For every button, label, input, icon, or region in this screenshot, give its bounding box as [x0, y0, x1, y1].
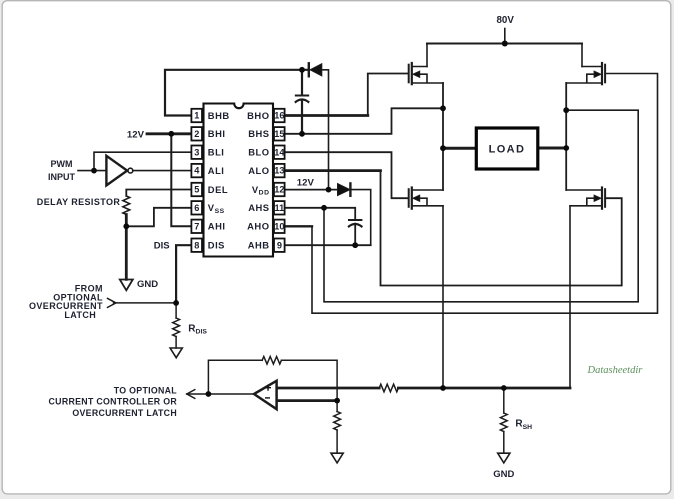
svg-text:INPUT: INPUT — [48, 172, 76, 182]
svg-text:DIS: DIS — [154, 240, 170, 251]
node: inverting input / R4 — [334, 398, 340, 404]
wire: Q4 source down to shunt rail corner — [569, 206, 571, 388]
inverter U2 triangle — [106, 156, 127, 186]
wire: op-amp output line — [187, 393, 254, 395]
pin 10 box — [274, 220, 285, 233]
wire: D1 anode to 12V VDD vertical — [322, 70, 329, 190]
transistor Q1 (B high side) — [409, 63, 443, 84]
svg-text:BHO: BHO — [247, 110, 269, 121]
wire: 12V vertical down to pin7 AHI — [171, 134, 191, 227]
pin 14 box — [274, 146, 285, 159]
capacitor C2 bootstrap A-side — [349, 219, 361, 221]
svg-text:AHS: AHS — [248, 202, 269, 213]
wire: RSH leads — [503, 388, 505, 453]
node: DIS / latch / RDIS — [173, 300, 179, 306]
arrowhead: to optional current controller — [187, 390, 195, 399]
svg-text:BHI: BHI — [208, 128, 226, 139]
svg-text:7: 7 — [194, 221, 199, 231]
node: 12V / BHI / AHI — [168, 131, 174, 137]
wire: from optional overcurrent latch line — [114, 302, 177, 304]
svg-text:13: 13 — [274, 166, 284, 176]
pin 7 box — [191, 220, 202, 233]
svg-text:ALI: ALI — [208, 165, 225, 176]
node: AHS sense tap — [321, 205, 327, 211]
svg-text:LOAD: LOAD — [489, 143, 526, 155]
svg-text:80V: 80V — [496, 15, 514, 26]
svg-text:11: 11 — [275, 203, 285, 213]
svg-text:8: 8 — [194, 240, 199, 250]
svg-text:12: 12 — [274, 185, 284, 195]
node: VDD diode junction — [326, 187, 332, 193]
wire: Q3 drain up to 80V rail — [581, 44, 583, 67]
label: FROM OPTIONAL OVERCURRENT LATCH — [29, 283, 103, 320]
svg-text:BLO: BLO — [248, 147, 269, 158]
wire: VSS pin6 link to delay resistor bottom — [126, 208, 191, 227]
wire: pin13 ALO (thick) down and across to Q4 gate — [285, 169, 381, 172]
ground symbol at R4 — [331, 453, 343, 463]
node: 80V tap — [502, 41, 508, 47]
capacitor C1 bootstrap B-side — [296, 95, 308, 97]
wire: 12V supply to pin2 BHI — [147, 132, 191, 135]
pin 2 box — [191, 127, 202, 140]
svg-text:GND: GND — [493, 469, 514, 480]
svg-text:12V: 12V — [297, 178, 315, 189]
LOAD box — [476, 128, 538, 169]
ground symbol at RSH — [498, 453, 510, 463]
svg-text:4: 4 — [194, 166, 200, 176]
transistor Q3 (A high side, mirrored) — [566, 63, 605, 84]
node: left phase sense tap — [440, 105, 446, 111]
svg-text:TO OPTIONAL: TO OPTIONAL — [114, 385, 178, 395]
svg-text:BHB: BHB — [208, 110, 230, 121]
svg-text:12V: 12V — [127, 129, 145, 140]
wire: pin11 AHS line to cap C2 — [285, 208, 356, 245]
ground symbol at delay resistor — [120, 280, 133, 291]
wire: pin5 DEL to delay resistor top — [126, 190, 191, 197]
pin 16 box — [274, 109, 285, 122]
pin 4 box — [191, 164, 202, 177]
wire: 80V rail — [427, 43, 582, 45]
wire: delay resistor bottom node to GND (thick) — [125, 215, 128, 280]
pin 5 box — [191, 183, 202, 196]
op-amp U3 (pointing left) — [254, 381, 277, 409]
pin 15 box — [274, 127, 285, 140]
wire: left phase node vertical — [442, 83, 444, 190]
node: C2 bottom on AHB — [352, 242, 358, 248]
wire: op-amp noninverting line + shunt rail (thick) — [277, 387, 380, 390]
wire: LOAD left connection (thick) — [443, 147, 475, 150]
wire: op-amp inverting line (thick) — [277, 399, 338, 402]
svg-text:16: 16 — [274, 111, 284, 121]
inverter U2 output bubble — [128, 168, 133, 173]
ground symbol at RDIS — [170, 348, 182, 358]
label: op-amp minus — [265, 397, 270, 399]
svg-text:2: 2 — [194, 129, 199, 139]
pin 13 box — [274, 164, 285, 177]
svg-text:9: 9 — [277, 240, 282, 250]
resistor RDIS (vertical zigzag) — [173, 318, 180, 337]
wire: pin9 AHB line — [285, 244, 371, 246]
svg-text:DELAY RESISTOR: DELAY RESISTOR — [37, 197, 121, 207]
pin 1 box — [191, 109, 202, 122]
node: delay resistor bottom — [123, 223, 129, 229]
svg-text:PWM: PWM — [51, 159, 73, 169]
svg-text:ALO: ALO — [248, 165, 269, 176]
wire: bootstrap cap C1 leads (to BHS line) — [301, 70, 303, 134]
wire: pin14 BLO to Q2 gate — [285, 152, 409, 198]
node: Q2 source on shunt rail — [440, 385, 446, 391]
pin 8 box — [191, 239, 202, 252]
wire: PWM input to inverter — [78, 170, 106, 172]
wire: right phase node vertical — [565, 83, 567, 190]
wire: 80V tap stub — [504, 29, 506, 44]
pin 3 box — [191, 146, 202, 159]
wire: feedback loop — [208, 360, 337, 400]
svg-text:BLI: BLI — [208, 147, 225, 158]
pin 9 box — [274, 239, 285, 252]
svg-text:3: 3 — [194, 147, 199, 157]
svg-text:LATCH: LATCH — [64, 310, 96, 320]
diode D2 VDD bootstrap feed (pointing right) — [338, 184, 351, 196]
label: TO OPTIONAL CURRENT CONTROLLER — [49, 385, 178, 418]
svg-text:10: 10 — [274, 221, 284, 231]
svg-text:CURRENT CONTROLLER OR: CURRENT CONTROLLER OR — [49, 397, 178, 407]
svg-text:GND: GND — [137, 279, 158, 290]
node: right phase sense tap — [563, 107, 569, 113]
wire: PWM branch up to pin3 BLI — [94, 152, 191, 170]
svg-text:14: 14 — [274, 147, 285, 157]
svg-text:AHO: AHO — [247, 221, 269, 232]
transistor Q2 (B low side) — [409, 188, 443, 209]
IC pin name labels right — [247, 110, 269, 251]
pin 11 box — [274, 201, 285, 214]
wire: pin12 VDD to diode D2 — [285, 189, 338, 191]
node: PWM input branch — [91, 168, 97, 174]
wire: pin15 BHS line — [285, 108, 443, 134]
svg-text:Datasheetdir: Datasheetdir — [587, 365, 644, 376]
wire: inverter output to pin4 ALI — [133, 170, 191, 172]
svg-text:6: 6 — [194, 203, 199, 213]
wire: pin16 BHO to Q1 gate (thick then up) — [285, 114, 368, 117]
pin 12 box — [274, 183, 285, 196]
wire: Q2 source down to shunt rail — [442, 206, 444, 388]
resistor R4 to ground (vertical zigzag) — [334, 412, 341, 431]
svg-text:15: 15 — [274, 129, 284, 139]
wire: pin10 AHO to Q3 gate (down, across, up) — [285, 225, 312, 227]
IC pin name labels left — [208, 110, 230, 251]
label: op-amp plus — [265, 385, 271, 391]
node: C1 bottom on BHS — [299, 131, 305, 137]
wire: RDIS top and bottom leads — [175, 303, 177, 348]
node: left phase LOAD tap — [440, 145, 446, 151]
node: bootstrap cap C1 top — [299, 67, 305, 73]
wire: LOAD right connection (thick) — [539, 147, 566, 150]
arrowhead: from optional overcurrent latch — [108, 298, 117, 307]
wire: AHS sense down-across-up to right phase node — [324, 110, 638, 302]
svg-text:AHB: AHB — [248, 240, 270, 251]
resistor RSH shunt (vertical zigzag) — [500, 413, 507, 432]
resistor R delay (vertical zigzag) — [123, 196, 130, 215]
transistor Q4 (A low side, mirrored) — [566, 188, 605, 209]
pin 6 box — [191, 201, 202, 214]
svg-text:DIS: DIS — [208, 240, 225, 251]
resistor R feedback (horizontal zigzag) — [262, 357, 281, 365]
wire: BHB pin1 bootstrap loop to diode D1 cathode — [165, 70, 309, 116]
svg-text:OVERCURRENT LATCH: OVERCURRENT LATCH — [72, 408, 177, 418]
svg-text:1: 1 — [194, 111, 199, 121]
svg-text:AHI: AHI — [208, 221, 226, 232]
wire: D2 cathode down to pin9 AHB line — [350, 190, 370, 246]
wire: Q1 drain up to 80V rail — [426, 44, 428, 67]
svg-text:5: 5 — [194, 185, 199, 195]
IC U1 HIP4081 body — [204, 104, 274, 257]
node: RSH tap on shunt rail — [501, 385, 507, 391]
svg-text:BHS: BHS — [248, 128, 269, 139]
node: op-amp output feedback tap — [206, 391, 212, 397]
pin number labels — [194, 111, 285, 251]
resistor R input (horizontal zigzag in shunt rail) — [379, 384, 398, 392]
wire: pin8 DIS down to overcurrent latch node — [176, 245, 191, 303]
node: right phase LOAD tap — [563, 145, 569, 151]
diode D1 bootstrap (pointing left) — [308, 63, 310, 76]
wire: R4 leads to GND — [336, 401, 338, 454]
svg-text:DEL: DEL — [208, 184, 228, 195]
